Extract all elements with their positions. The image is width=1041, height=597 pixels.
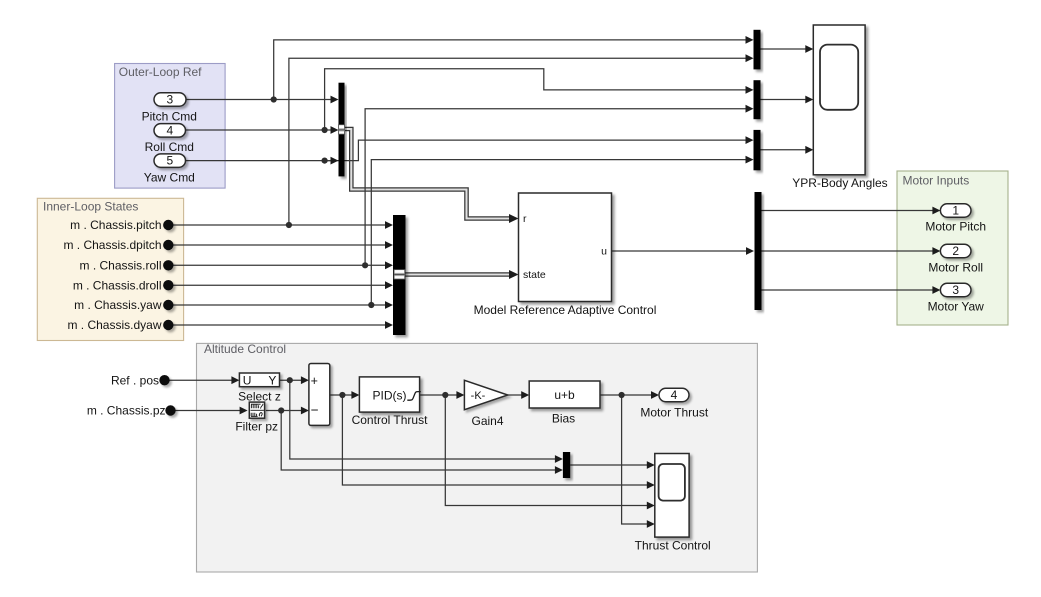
svg-text:Control Thrust: Control Thrust	[352, 413, 428, 427]
wire port4 Roll Cmd to mux1	[186, 129, 333, 131]
wire port5 Yaw Cmd to mux1	[186, 160, 333, 162]
wire roll cmd branch to muxB	[325, 69, 747, 130]
mux M2 output port square	[394, 270, 405, 280]
wire m.Chassis.pitch to mux2	[168, 224, 386, 226]
mux M5	[563, 452, 570, 478]
svg-text:Select z: Select z	[238, 390, 281, 404]
svg-text:+: +	[311, 374, 318, 388]
svg-text:Gain4: Gain4	[471, 414, 503, 428]
svg-text:3: 3	[952, 283, 959, 297]
svg-text:u: u	[601, 246, 607, 258]
junction yaw cmd	[322, 158, 328, 164]
mux M1	[339, 83, 345, 177]
svg-text:Altitude Control: Altitude Control	[204, 342, 286, 356]
bias block	[529, 381, 600, 408]
svg-text:m . Chassis.yaw: m . Chassis.yaw	[74, 298, 162, 312]
svg-text:3: 3	[166, 93, 173, 107]
arrow into Select z	[231, 376, 239, 384]
svg-text:−: −	[311, 403, 319, 418]
wire sum branch to thrust scope in2	[342, 395, 648, 485]
svg-text:4: 4	[166, 124, 173, 138]
svg-text:r: r	[523, 213, 527, 225]
mux B	[754, 80, 761, 119]
wire Select z out to sum	[280, 379, 303, 381]
wire m.Chassis.dpitch to mux2	[168, 244, 386, 246]
wire yaw cmd branch to muxC	[325, 140, 747, 161]
svg-text:m . Chassis.dyaw: m . Chassis.dyaw	[67, 318, 161, 332]
svg-text:state: state	[523, 269, 546, 281]
svg-text:1: 1	[952, 204, 959, 218]
svg-text:U: U	[243, 373, 252, 387]
junction select z out	[287, 377, 293, 383]
wire sum out to PID	[330, 394, 353, 396]
wire demux out1 to Motor Pitch	[762, 210, 935, 212]
svg-text:-K-: -K-	[471, 390, 486, 402]
area Altitude Control	[197, 342, 758, 572]
svg-text:m . Chassis.pitch: m . Chassis.pitch	[70, 218, 161, 232]
svg-text:YPR-Body Angles: YPR-Body Angles	[792, 176, 887, 190]
wire pitch cmd branch to muxA	[274, 40, 747, 100]
wire MRAC u to demux	[612, 250, 748, 252]
wire chassis.pitch branch to muxA	[289, 58, 747, 225]
junction chassis.yaw	[368, 302, 374, 308]
arrows into mux1	[331, 96, 339, 104]
signal dot Ref.pos	[159, 375, 169, 385]
svg-text:Model Reference Adaptive Contr: Model Reference Adaptive Control	[474, 303, 657, 317]
wire demux out3 to Motor Yaw	[762, 289, 935, 291]
scope YPR-Body Angles	[813, 25, 865, 175]
wire m.Chassis.roll to mux2	[168, 264, 386, 266]
svg-text:u+b: u+b	[554, 388, 575, 402]
wire m.Chassis.droll to mux2	[168, 284, 386, 286]
demux D1	[755, 192, 762, 310]
arrow into bias	[521, 391, 529, 399]
wire m.Chassis.dyaw to mux2	[168, 324, 386, 326]
area Inner-Loop States	[37, 198, 183, 340]
wire m.Chassis.yaw to mux2	[168, 304, 386, 306]
junction pid out	[442, 392, 448, 398]
wire muxC out to scope	[761, 149, 808, 151]
svg-text:Motor Roll: Motor Roll	[928, 261, 983, 275]
wire filter branch to mux5	[281, 411, 556, 471]
selector block Select z	[239, 373, 279, 387]
arrows into mux5	[555, 455, 563, 463]
outport 1 Motor Pitch	[940, 204, 971, 218]
wire muxB out to scope	[761, 99, 808, 101]
arrow into port4	[651, 391, 659, 399]
outport 4 Motor Thrust	[659, 388, 689, 402]
wire mux5 out to thrust scope in1	[570, 464, 648, 466]
inport 5	[154, 154, 186, 168]
arrows into sum	[301, 376, 309, 384]
svg-text:Ref . pos: Ref . pos	[111, 373, 159, 387]
inport 3	[154, 93, 186, 107]
junction filter out	[278, 407, 284, 413]
junction chassis.roll	[362, 262, 368, 268]
wire port3 Pitch Cmd to mux1	[186, 99, 332, 101]
wire vector mux1 out to MRAC r	[345, 129, 519, 223]
svg-text:5: 5	[166, 154, 173, 168]
svg-text:Inner-Loop States: Inner-Loop States	[43, 199, 138, 213]
wire pid branch to thrust scope in3	[445, 395, 648, 506]
signal dots inner loop	[163, 220, 173, 330]
gain Gain4	[464, 380, 507, 409]
sum block	[309, 364, 330, 426]
arrow into gain	[456, 391, 464, 399]
svg-text:m . Chassis.pz: m . Chassis.pz	[87, 404, 166, 418]
svg-text:2: 2	[952, 244, 959, 258]
junction roll cmd	[322, 127, 328, 133]
mux A	[754, 30, 761, 70]
wire m.Chassis.pz to Filter pz	[176, 410, 242, 412]
wire bias branch to thrust scope in4	[622, 395, 649, 524]
svg-text:Pitch Cmd: Pitch Cmd	[142, 110, 197, 124]
wire gain out to bias	[508, 394, 523, 396]
arrows into muxA muxB muxC	[746, 36, 754, 44]
wire chassis.yaw branch to muxC	[371, 160, 747, 305]
filter block Filter pz	[249, 402, 264, 418]
svg-text:Outer-Loop Ref: Outer-Loop Ref	[119, 65, 202, 79]
junction pitch cmd	[271, 96, 277, 102]
svg-text:Bias: Bias	[552, 412, 575, 426]
scope Thrust Control	[655, 454, 689, 538]
wire PID out to gain	[420, 394, 458, 396]
area Motor Inputs	[897, 171, 1008, 325]
svg-text:4: 4	[671, 388, 678, 402]
signal dot m.Chassis.pz	[165, 405, 175, 415]
mux M1 output port square	[339, 125, 345, 135]
svg-text:Motor Thrust: Motor Thrust	[640, 406, 708, 420]
PID block Control Thrust	[359, 377, 419, 412]
svg-text:Yaw Cmd: Yaw Cmd	[144, 170, 195, 184]
wire Ref.pos to Select z	[170, 379, 234, 381]
wire vector mux2 out to MRAC state	[406, 270, 519, 279]
wire bias out to port4	[600, 394, 653, 396]
arrows into motor ports	[932, 207, 940, 215]
wire chassis.roll branch to muxB	[365, 109, 747, 266]
svg-text:Motor Yaw: Motor Yaw	[928, 300, 985, 314]
svg-text:Motor Pitch: Motor Pitch	[925, 220, 986, 234]
arrows into mux2	[385, 221, 393, 229]
svg-text:Thrust Control: Thrust Control	[635, 539, 711, 553]
wire filter out to sum	[266, 410, 303, 412]
junction sum out	[339, 392, 345, 398]
junction bias out	[619, 392, 625, 398]
inport 4	[154, 124, 186, 137]
svg-text:Y: Y	[268, 373, 276, 387]
arrow into PID	[351, 391, 359, 399]
svg-text:Roll Cmd: Roll Cmd	[145, 140, 194, 154]
arrow into Filter pz	[240, 407, 248, 415]
mux C	[754, 130, 761, 170]
mux M2	[393, 215, 406, 335]
wire demux out2 to Motor Roll	[762, 250, 935, 252]
MRAC subsystem U1	[519, 193, 612, 302]
svg-text:m . Chassis.dpitch: m . Chassis.dpitch	[63, 238, 161, 252]
arrow into demux	[746, 247, 754, 255]
area Outer-Loop Ref	[115, 64, 226, 189]
wire select z branch to mux5	[290, 380, 557, 459]
junction chassis.pitch	[286, 222, 292, 228]
wire muxA out to scope	[761, 48, 808, 50]
svg-text:PID(s): PID(s)	[373, 388, 407, 402]
svg-text:m . Chassis.droll: m . Chassis.droll	[73, 278, 162, 292]
outport 3 Motor Yaw	[940, 283, 971, 297]
svg-text:Motor Inputs: Motor Inputs	[903, 173, 970, 187]
svg-text:m . Chassis.roll: m . Chassis.roll	[79, 259, 161, 273]
outport 2 Motor Roll	[940, 244, 971, 258]
arrows into thrust scope	[647, 461, 655, 469]
arrows into scope	[805, 45, 813, 53]
svg-text:Filter pz: Filter pz	[235, 420, 278, 434]
